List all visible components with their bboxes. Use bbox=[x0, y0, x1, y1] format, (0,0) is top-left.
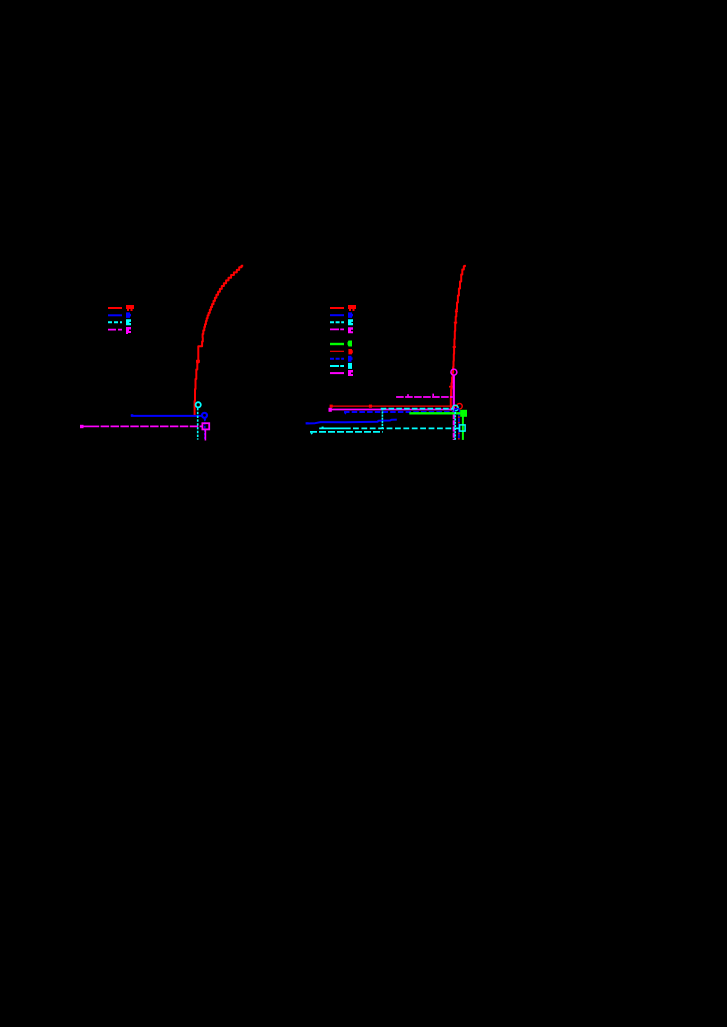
legend L4 magenta open square glyph bbox=[126, 327, 131, 334]
red square marker x331 right plot bbox=[330, 405, 333, 408]
magenta open square marker left plot bbox=[202, 423, 209, 429]
blue open circle marker right plot bbox=[454, 409, 459, 414]
red curve left plot marker tick bbox=[196, 360, 200, 363]
cyan vertical x382.4 right plot bbox=[381, 408, 383, 428]
cyan down triangle marker at start right plot bbox=[310, 433, 313, 435]
legend R8 cyan glyph bbox=[348, 363, 352, 369]
magenta dashed horizontal left plot bbox=[84, 425, 100, 427]
legend L1 red solid line sample bbox=[108, 307, 122, 309]
red square marker x370 right plot bbox=[369, 405, 372, 408]
magenta start square marker right plot bbox=[329, 408, 332, 412]
magenta tick up at x408 on y397 line bbox=[407, 394, 409, 396]
red open circle marker right plot bbox=[457, 404, 462, 409]
legend R4 magenta open square glyph bbox=[348, 327, 353, 333]
red curve left plot bbox=[195, 266, 244, 416]
legend R2 blue filled circle glyph bbox=[348, 312, 353, 318]
cyan open square marker right plot bbox=[460, 425, 466, 431]
legend R1 red star glyph bbox=[348, 305, 356, 311]
green thick horizontal y413.3 right plot bbox=[409, 412, 460, 414]
legend R6 red thin line sample bbox=[330, 350, 344, 352]
cyan open circle marker right plot bbox=[453, 405, 459, 411]
cyan dashed vertical left plot bbox=[197, 408, 199, 440]
cyan tick at start of y428 line bbox=[322, 427, 324, 429]
blue dashed vertical left plot bbox=[204, 419, 206, 440]
legend R7 blue dashed line sample bbox=[330, 358, 344, 360]
legend R5 green triangle glyph bbox=[348, 341, 353, 347]
legend R2 blue solid line sample bbox=[330, 314, 344, 316]
blue arrow at start of dashed line right plot bbox=[344, 413, 346, 415]
legend R3 cyan dashed line sample bbox=[330, 321, 344, 323]
green solid vertical right plot bbox=[462, 417, 464, 440]
cyan dashed vertical below cluster right plot bbox=[454, 412, 456, 440]
legend L2 blue solid line sample bbox=[108, 314, 122, 316]
legend R6 red circle glyph bbox=[348, 349, 352, 354]
magenta tick up at x433 on y397 line bbox=[432, 394, 434, 397]
red curve right plot tick at y322 bbox=[454, 322, 457, 324]
red dashed vertical below circle right plot bbox=[458, 414, 460, 440]
blue solid vertical below cluster right plot bbox=[458, 414, 460, 440]
cyan dashed horizontal y408.6 right plot bbox=[381, 408, 453, 410]
legend R9 magenta glyph bbox=[348, 370, 353, 376]
magenta solid horizontal y409.5 right plot bbox=[330, 409, 452, 411]
cyan dashed bottom y431.9 right plot bbox=[310, 431, 383, 433]
blue curve start blob right plot bbox=[306, 422, 309, 424]
legend L3 cyan dashed line sample bbox=[108, 321, 122, 323]
blue line start tick left plot bbox=[131, 414, 134, 416]
legend R5 green thick line sample bbox=[330, 343, 344, 345]
legend R3 cyan open circle glyph bbox=[348, 319, 353, 325]
legend L3 cyan open circle glyph bbox=[126, 319, 131, 325]
red curve right plot tick at y311 bbox=[455, 310, 458, 312]
legend R9 magenta solid line sample bbox=[330, 372, 344, 374]
magenta thick vertical right plot lower dashed bbox=[453, 414, 455, 440]
red curve right plot bbox=[451, 265, 465, 411]
blue dashed horizontal y412 right plot bbox=[344, 411, 453, 413]
legend R4 magenta dashed line sample bbox=[330, 328, 344, 330]
legend L1 red star glyph bbox=[126, 305, 134, 311]
red dashed vertical overlay on blue vertical right plot bbox=[458, 417, 460, 440]
legend R1 red solid line sample bbox=[330, 307, 344, 309]
magenta dashed horizontal y397 right plot bbox=[396, 396, 453, 398]
blue arrow head below circle left plot bbox=[204, 419, 207, 422]
red curve right plot tick at y347 bbox=[453, 346, 456, 348]
cyan line y428.4 right plot solid part bbox=[319, 427, 351, 429]
magenta thick vertical right plot upper bbox=[453, 375, 455, 414]
blue horizontal line left plot bbox=[131, 415, 202, 417]
red curve right plot tick at y387 bbox=[449, 386, 454, 388]
legend R7 blue glyph bbox=[348, 356, 353, 362]
legend L2 blue filled circle glyph bbox=[126, 312, 131, 318]
blue open circle marker left plot bbox=[202, 413, 207, 418]
cyan line y428.4 right plot dashed part bbox=[353, 427, 459, 429]
red thin horizontal y406 right plot bbox=[331, 405, 456, 407]
blue solid curve right plot bbox=[306, 420, 397, 424]
legend L4 magenta dashed line sample bbox=[108, 329, 122, 331]
magenta open circle marker right plot bbox=[451, 369, 457, 375]
magenta start square marker left plot bbox=[80, 425, 84, 428]
magenta solid vertical left plot bbox=[204, 430, 206, 441]
cyan open circle marker left plot bbox=[196, 402, 201, 407]
legend R8 cyan dashed line sample bbox=[330, 365, 344, 367]
green filled square marker right plot bbox=[460, 410, 467, 417]
